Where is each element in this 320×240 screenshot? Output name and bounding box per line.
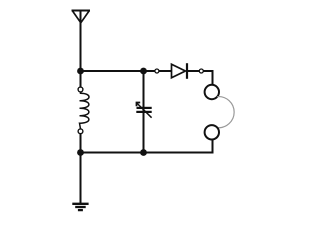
wire middle dot to terminal	[144, 70, 156, 72]
wire antenna lead	[80, 11, 82, 72]
wire middle vertical (capacitor branch)	[143, 71, 145, 153]
terminal circle (coil tap left of diode)	[155, 69, 159, 73]
antenna	[72, 11, 91, 23]
node top-left junction	[77, 68, 84, 75]
wire terminal to top-right corner	[203, 71, 212, 85]
capacitor C1 variable top plate	[137, 107, 152, 109]
wire top junction to coil terminal	[80, 71, 82, 87]
wire bottom horizontal middle-to-left	[81, 152, 144, 154]
diode D1	[172, 63, 188, 79]
terminal circle (right of diode)	[199, 69, 203, 73]
terminal circle (coil bottom)	[78, 129, 83, 134]
headphone earpiece top	[205, 85, 219, 99]
ground	[72, 204, 88, 210]
wire top horizontal left-to-middle	[81, 70, 144, 72]
inductor L1	[80, 92, 90, 129]
node bottom-middle junction	[140, 149, 147, 156]
wire bottom earpiece to bottom-right corner	[144, 139, 213, 152]
wire coil terminal to bottom junction	[80, 134, 82, 153]
capacitor C1 adjustment arrow	[137, 103, 152, 118]
node top-middle junction	[140, 68, 147, 75]
terminal circle (coil top)	[78, 87, 83, 92]
node bottom-left junction	[77, 149, 84, 156]
headphone earpiece bottom	[205, 125, 219, 139]
wire bottom junction to ground	[80, 153, 82, 204]
capacitor C1 variable bottom plate	[136, 111, 151, 113]
wire terminal to diode anode	[159, 70, 172, 72]
wire diode cathode to terminal	[187, 70, 199, 72]
headphone band arc	[217, 97, 234, 128]
